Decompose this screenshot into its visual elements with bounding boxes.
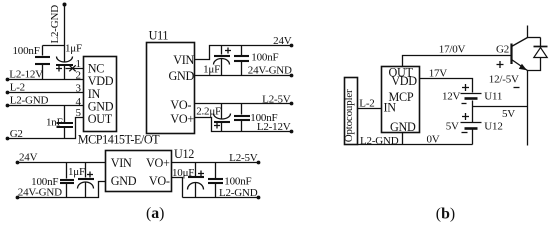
- svg-text:1μF: 1μF: [65, 42, 82, 54]
- svg-text:GND: GND: [168, 69, 194, 83]
- node L2-5V terminal dot: [290, 102, 294, 106]
- wire 5V tap to emitter: [473, 106, 528, 108]
- optocoupler U box: [343, 78, 358, 145]
- svg-text:(b): (b): [436, 205, 455, 222]
- pin number 1: [76, 58, 82, 70]
- pin label OUT: [88, 112, 113, 126]
- wire L-2 optocoupler to IN: [358, 108, 382, 110]
- wire 24V-GND to U12 GND: [18, 182, 106, 198]
- op-amp U12 converter box: [106, 151, 172, 192]
- svg-text:100nF: 100nF: [31, 176, 58, 188]
- wire VDD to 17V: [420, 79, 473, 93]
- svg-text:24V-GND: 24V-GND: [18, 187, 62, 199]
- svg-text:0V: 0V: [427, 133, 440, 145]
- pin label GND: [168, 69, 194, 83]
- wire L2-GND to pin 4: [8, 105, 84, 107]
- value label 12V: [442, 91, 461, 103]
- value label 100nF: [224, 176, 251, 188]
- svg-text:VO-: VO-: [149, 174, 170, 188]
- wire GND to 0V rail: [402, 133, 404, 145]
- svg-text:(a): (a): [146, 205, 164, 222]
- net label L2-12V: [9, 68, 43, 80]
- svg-text:5V: 5V: [446, 120, 459, 132]
- wire L2-GND riser: [64, 5, 66, 62]
- svg-text:U12: U12: [484, 120, 502, 132]
- capacitor C 1uF polarized (24V row): [78, 163, 95, 198]
- node G2 terminal dot: [6, 137, 10, 141]
- node 24V terminal dot: [290, 44, 294, 48]
- svg-text:1nF: 1nF: [46, 117, 63, 129]
- node L-2 terminal dot: [6, 91, 10, 95]
- value label 100nF: [31, 176, 58, 188]
- part label U12: [484, 120, 502, 132]
- wire VO+ to L2-12V rail: [195, 118, 292, 132]
- label - (emitter): [514, 87, 520, 89]
- value label 5V: [446, 120, 459, 132]
- node L2-GND terminal dot: [6, 104, 10, 108]
- wire L2-12V to pin 2: [8, 79, 84, 81]
- net label G2: [10, 128, 23, 140]
- wire VO- to L2-GND rail: [172, 178, 259, 198]
- wire battery mid to 5V tap: [472, 101, 474, 123]
- capacitor C 1uF polarized (24V): [214, 46, 232, 76]
- svg-text:17V: 17V: [429, 68, 448, 80]
- svg-text:VO+: VO+: [170, 112, 194, 126]
- svg-text:24V-GND: 24V-GND: [248, 64, 292, 76]
- op-amp U11 converter box: [147, 43, 195, 134]
- svg-text:VO-: VO-: [170, 98, 191, 112]
- value label 100nF: [251, 52, 278, 64]
- pin label VO-: [149, 174, 170, 188]
- transistor Q IGBT: [512, 26, 528, 146]
- pin number 4: [76, 96, 82, 108]
- node L2-12V terminal dot: [290, 130, 294, 134]
- part label U12: [174, 147, 194, 161]
- value label 1uF: [65, 42, 82, 54]
- capacitor C 1uF polarized (top): [56, 57, 73, 80]
- svg-text:12/-5V: 12/-5V: [489, 73, 519, 85]
- pin label VO+: [170, 112, 194, 126]
- svg-text:L2-5V: L2-5V: [229, 152, 258, 164]
- capacitor C 2.2uF polarized: [214, 104, 231, 132]
- label + (gate): [497, 61, 504, 68]
- value label 1uF: [203, 63, 220, 75]
- net label 5V: [502, 108, 515, 120]
- wire 24V to U12 VIN: [18, 162, 106, 164]
- pin label VIN: [173, 53, 194, 67]
- battery U12 (5V source): [461, 113, 482, 133]
- pin number 2: [76, 70, 82, 82]
- node 24V-GND terminal dot: [16, 196, 20, 200]
- svg-text:3: 3: [76, 83, 82, 95]
- capacitor C 100nF (24V): [234, 46, 249, 76]
- svg-text:4: 4: [76, 96, 82, 108]
- pin label VO+: [146, 156, 170, 170]
- net label 24V: [273, 35, 292, 47]
- svg-text:Optocoupler: Optocoupler: [343, 89, 355, 142]
- capacitor C 10uF polarized: [188, 163, 205, 198]
- svg-text:OUT: OUT: [88, 112, 113, 126]
- svg-text:2.2μF: 2.2μF: [196, 106, 221, 118]
- svg-text:2: 2: [76, 70, 82, 82]
- wire battery bottom to 0V rail: [472, 130, 474, 145]
- battery U11 (12V source): [461, 84, 482, 104]
- svg-text:U12: U12: [174, 147, 194, 161]
- wire VO+ to L2-5V rail: [172, 162, 259, 164]
- value label 100nF: [13, 45, 40, 57]
- svg-text:L-2: L-2: [10, 82, 25, 94]
- svg-text:1: 1: [76, 58, 82, 70]
- pin number 5: [76, 107, 82, 119]
- svg-text:L2-GND: L2-GND: [219, 187, 258, 199]
- capacitor C 100nF (L2-5V): [234, 104, 250, 132]
- pin label VO-: [170, 98, 191, 112]
- wire L-2 to pin 3: [8, 92, 84, 94]
- svg-text:U11: U11: [149, 29, 169, 43]
- node 24V terminal dot: [16, 161, 20, 165]
- net label L-2: [359, 98, 374, 110]
- svg-text:L2-GND: L2-GND: [49, 5, 61, 44]
- svg-text:5V: 5V: [502, 108, 515, 120]
- svg-text:VDD: VDD: [391, 74, 417, 88]
- svg-text:100nF: 100nF: [251, 52, 278, 64]
- capacitor C 100nF (L2-5V row): [208, 163, 223, 198]
- op-amp U MCP driver box (b): [382, 67, 420, 133]
- pin label IN: [88, 87, 101, 101]
- wire jog 100nF to riser: [43, 45, 65, 47]
- net label L2-12V: [257, 121, 291, 133]
- svg-text:L-2: L-2: [359, 98, 374, 110]
- pin label VIN: [111, 156, 132, 170]
- pin number 3: [76, 83, 82, 95]
- value label 1uF: [68, 166, 85, 178]
- net label G2: [496, 44, 509, 56]
- svg-text:24V: 24V: [273, 35, 292, 47]
- net label 24V-GND: [248, 64, 292, 76]
- node L2-GND top terminal dot: [63, 3, 67, 7]
- svg-text:L2-12V: L2-12V: [9, 68, 43, 80]
- node L2-5V terminal dot: [257, 161, 261, 165]
- part label MCP: [389, 90, 414, 104]
- pin label VDD: [88, 74, 114, 88]
- svg-text:100nF: 100nF: [224, 176, 251, 188]
- wire OUT to G2 rail: [403, 56, 511, 67]
- node L2-12V terminal dot: [6, 78, 10, 82]
- capacitor C 1nF: [57, 106, 74, 139]
- pin label GND: [88, 99, 114, 113]
- pin label GND: [390, 120, 416, 134]
- net label L2-5V: [229, 152, 258, 164]
- wire collector to diode: [528, 37, 541, 39]
- capacitor C 100nF (24V row): [60, 163, 74, 198]
- svg-text:L2-GND: L2-GND: [10, 95, 49, 107]
- svg-text:VIN: VIN: [111, 156, 132, 170]
- svg-text:10μF: 10μF: [172, 167, 194, 179]
- pin label IN: [384, 100, 397, 114]
- svg-text:IN: IN: [384, 100, 397, 114]
- wire VIN to 24V rail: [195, 46, 292, 60]
- wire L2-GND bottom rail: [358, 144, 473, 146]
- net label 17/0V: [439, 44, 466, 56]
- caption (a): [146, 205, 164, 222]
- svg-text:12V: 12V: [442, 91, 461, 103]
- svg-text:24V: 24V: [19, 152, 38, 164]
- diode D freewheeling: [528, 38, 548, 71]
- svg-text:100nF: 100nF: [13, 45, 40, 57]
- node L2-GND terminal dot: [257, 196, 261, 200]
- net label 17V: [429, 68, 448, 80]
- svg-text:U11: U11: [484, 91, 502, 103]
- net label L2-GND: [219, 187, 258, 199]
- value label 1nF: [46, 117, 63, 129]
- capacitor C 100nF top-left: [35, 46, 50, 80]
- svg-text:GND: GND: [390, 120, 416, 134]
- net label 12/-5V: [489, 73, 519, 85]
- part label U11: [149, 29, 169, 43]
- svg-text:L2-5V: L2-5V: [262, 93, 291, 105]
- value label 100nF: [250, 112, 277, 124]
- op-amp U MCP1415T-E/OT driver box: [84, 57, 117, 132]
- pin label GND: [111, 174, 137, 188]
- svg-text:1μF: 1μF: [68, 166, 85, 178]
- part label U11: [484, 91, 502, 103]
- value label 2.2uF: [196, 106, 221, 118]
- svg-text:MCP1415T-E/OT: MCP1415T-E/OT: [78, 132, 160, 146]
- pin 1 no-connect X: [66, 65, 84, 71]
- pin label OUT: [389, 66, 414, 80]
- svg-text:VIN: VIN: [173, 53, 194, 67]
- wire 24V-GND rail: [195, 75, 292, 77]
- net label 0V: [427, 133, 440, 145]
- net label L2-5V: [262, 93, 291, 105]
- svg-text:100nF: 100nF: [250, 112, 277, 124]
- pin label NC: [88, 62, 105, 76]
- wire G2 to pin 5: [8, 118, 84, 139]
- svg-text:17/0V: 17/0V: [439, 44, 466, 56]
- net label L2-GND (vertical): [49, 5, 61, 44]
- svg-text:1μF: 1μF: [203, 63, 220, 75]
- wire VO- to L2-5V rail: [195, 103, 292, 105]
- net label L-2: [10, 82, 25, 94]
- net label 24V-GND: [18, 187, 62, 199]
- part label MCP1415T-E/OT: [78, 132, 160, 146]
- svg-text:G2: G2: [496, 44, 509, 56]
- value label 10uF: [172, 167, 194, 179]
- pin label VDD: [391, 74, 417, 88]
- net label L2-GND: [360, 135, 399, 147]
- svg-text:5: 5: [76, 107, 82, 119]
- node 24V-GND terminal dot: [290, 74, 294, 78]
- net label L2-GND: [10, 95, 49, 107]
- svg-text:VO+: VO+: [146, 156, 170, 170]
- caption (b): [436, 205, 455, 222]
- svg-text:GND: GND: [111, 174, 137, 188]
- net label 24V: [19, 152, 38, 164]
